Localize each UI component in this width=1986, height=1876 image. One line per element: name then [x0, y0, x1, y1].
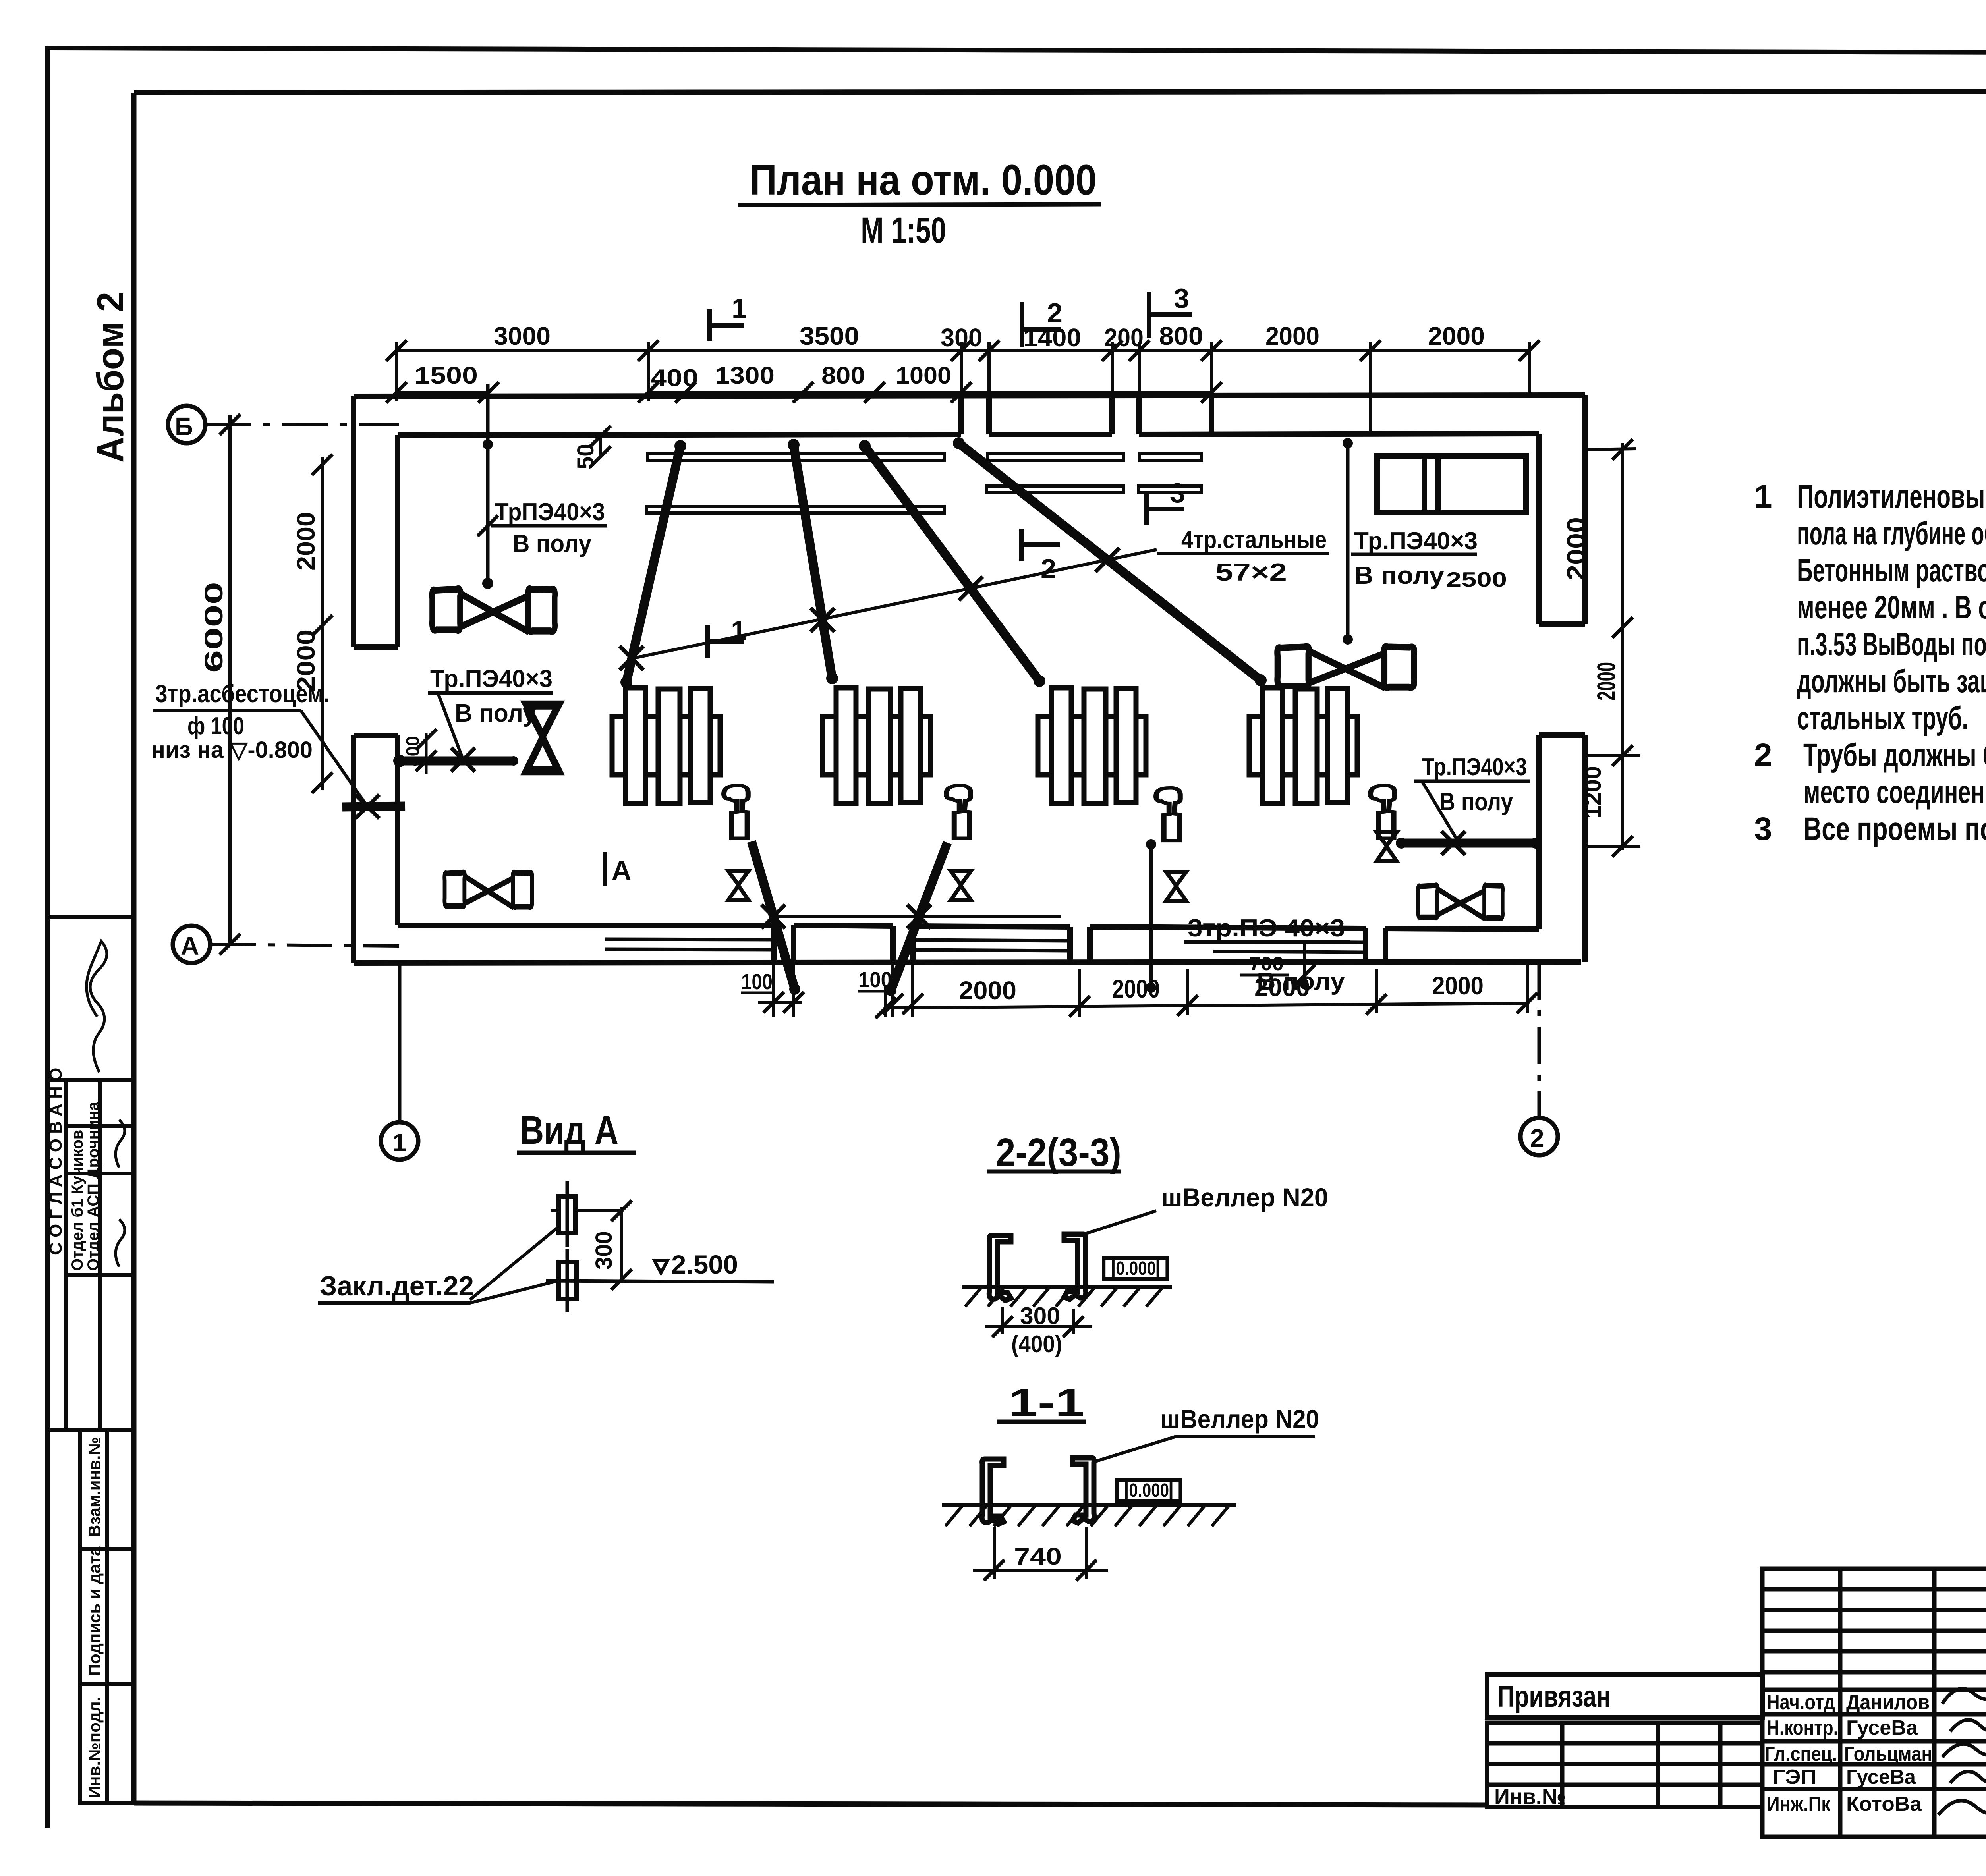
400 vertical dim lower left: [425, 733, 428, 774]
axis A datum line: [210, 944, 399, 946]
header pipe right: [1401, 839, 1536, 848]
svg-text:300: 300: [1020, 1303, 1060, 1329]
svg-text:50: 50: [573, 444, 599, 469]
svg-text:Инв.№подл.: Инв.№подл.: [85, 1697, 104, 1798]
section mark 1 top: [710, 309, 744, 341]
svg-text:менее 20мм . В соответствии с: менее 20мм . В соответствии с СНиП 3.05.…: [1797, 589, 1986, 625]
svg-text:Данилов: Данилов: [1846, 1691, 1930, 1714]
svg-text:Гл.спец.: Гл.спец.: [1765, 1743, 1837, 1766]
right dimension chain line: [1621, 443, 1624, 850]
signature labels: [1765, 1691, 1932, 1816]
svg-text:800: 800: [1159, 322, 1203, 350]
svg-text:Инж.Пк: Инж.Пк: [1767, 1793, 1831, 1816]
axis 2 circle: [1520, 1118, 1558, 1155]
drain funnel 4: [1377, 832, 1397, 861]
svg-text:В полу: В полу: [455, 700, 537, 727]
privyazan lower grid: [1487, 1723, 1762, 1807]
svg-text:2: 2: [1530, 1124, 1544, 1152]
svg-text:2000: 2000: [1562, 517, 1590, 581]
gate valve lower right: [1418, 885, 1503, 919]
svg-text:800: 800: [821, 362, 865, 389]
bottom wall opening jambs: [771, 925, 777, 963]
svg-text:Все проемы после монтажа заде: Все проемы после монтажа заделать.: [1803, 811, 1986, 847]
elbow fitting 2: [947, 786, 971, 838]
svg-text:Гольцман: Гольцман: [1844, 1743, 1932, 1766]
svg-text:В полу: В полу: [513, 530, 591, 558]
740 dim 1-1: [993, 1527, 996, 1579]
thin leader diagonal (steel pipes): [630, 550, 1157, 659]
svg-text:100: 100: [741, 969, 773, 994]
svg-text:2000: 2000: [1428, 322, 1485, 350]
drain pipe 2: [891, 843, 947, 990]
embedded channel strips in bottom wall: [605, 939, 1366, 952]
riser pipe 4: [959, 443, 1261, 680]
bottom dimension line: [886, 1003, 1527, 1008]
svg-text:ГусеВа: ГусеВа: [1846, 1766, 1916, 1789]
dimension row 1 line: [396, 349, 1529, 352]
crossing marks: [620, 646, 643, 670]
svg-text:1: 1: [392, 1128, 407, 1157]
svg-text:место соединения труб должны б: место соединения труб должны быть уплотн…: [1803, 774, 1986, 810]
row1 ticks: [386, 340, 407, 361]
svg-text:ТрПЭ40×3: ТрПЭ40×3: [495, 498, 605, 526]
300 (400) dim 2-2: [1001, 1307, 1004, 1334]
svg-text:С О Г Л А С О В А Н О: С О Г Л А С О В А Н О: [46, 1068, 66, 1255]
section mark A inner: [603, 852, 607, 886]
50 offset dimension: [599, 434, 602, 457]
elbow fitting 3: [1156, 788, 1180, 841]
axis B datum line: [205, 424, 399, 425]
zero level box 1-1: [1117, 1480, 1180, 1501]
svg-text:1200: 1200: [1580, 766, 1606, 818]
svg-text:1300: 1300: [715, 362, 775, 389]
drain funnel 1: [728, 871, 748, 900]
svg-text:Инв.№: Инв.№: [1494, 1784, 1566, 1809]
svg-text:(400): (400): [1011, 1331, 1062, 1357]
sheet top border line: [47, 48, 1986, 54]
svg-text:3000: 3000: [494, 322, 551, 350]
svg-text:КотоВа: КотоВа: [1846, 1793, 1922, 1816]
row2 ticks: [386, 382, 407, 403]
svg-text:3: 3: [1174, 283, 1189, 314]
svg-text:ф 100: ф 100: [187, 712, 244, 740]
right wall lower segment: [1536, 735, 1542, 929]
svg-text:Подпись и дата: Подпись и дата: [85, 1546, 104, 1676]
left stamp approval section: [47, 1080, 134, 1430]
radiator unit 4: [1249, 688, 1357, 803]
axis 2 leader line: [1538, 962, 1541, 1118]
svg-text:2: 2: [1754, 737, 1772, 773]
svg-text:Тр.ПЭ40×3: Тр.ПЭ40×3: [430, 665, 553, 693]
radiator unit 3: [1038, 688, 1146, 803]
svg-text:200: 200: [1104, 323, 1144, 352]
svg-text:1-1: 1-1: [1008, 1380, 1084, 1425]
left wall upper segment: [351, 396, 356, 647]
embed plate lower: [559, 1262, 577, 1299]
svg-text:3500: 3500: [800, 322, 859, 350]
svg-text:2-2(3-3): 2-2(3-3): [996, 1130, 1121, 1175]
svg-text:2: 2: [1047, 297, 1063, 328]
svg-text:2000: 2000: [292, 512, 320, 571]
svg-text:низ на ▽-0.800: низ на ▽-0.800: [151, 737, 313, 763]
channel pair 1-1: [982, 1459, 1004, 1524]
svg-text:А: А: [181, 932, 199, 960]
svg-text:2000: 2000: [1432, 971, 1484, 1000]
gate valve right (near tank): [1277, 647, 1414, 688]
svg-text:400: 400: [651, 365, 698, 391]
axis 1 circle: [381, 1122, 418, 1160]
svg-text:57×2: 57×2: [1215, 559, 1287, 586]
embed plate upper: [551, 1209, 622, 1212]
axis B circle: [168, 406, 205, 443]
right wall upper segment: [1536, 434, 1542, 624]
svg-text:2000: 2000: [1112, 975, 1160, 1003]
revision table: [1762, 1569, 1986, 1837]
extension lines bottom: [886, 963, 1527, 1017]
top dimension labels row1: [494, 322, 1485, 352]
svg-text:Отдел б1 Кучиков: Отдел б1 Кучиков: [69, 1130, 86, 1271]
radiator unit 2: [823, 688, 931, 803]
svg-text:300: 300: [591, 1231, 617, 1270]
asbestos pipe stub left wall: [342, 806, 405, 807]
svg-text:2000: 2000: [1592, 662, 1621, 701]
svg-text:3тр.асбестоцем.: 3тр.асбестоцем.: [155, 680, 330, 708]
section mark 2 inner: [1022, 529, 1060, 561]
svg-text:Нач.отд: Нач.отд: [1767, 1691, 1835, 1714]
pipe end dots: [393, 437, 1541, 996]
svg-text:М 1:50: М 1:50: [861, 210, 946, 251]
2000/2000 dimension line: [321, 457, 324, 790]
radiator unit 1: [612, 688, 720, 803]
svg-text:Бетонным раствором на толщину: Бетонным раствором на толщину слоя над т…: [1797, 552, 1986, 589]
svg-text:6000: 6000: [199, 582, 228, 673]
svg-text:Привязан: Привязан: [1497, 1680, 1611, 1714]
elbow fitting 4: [1371, 786, 1395, 838]
zero level box 2-2: [1104, 1258, 1167, 1279]
svg-text:Тр.ПЭ40×3: Тр.ПЭ40×3: [1422, 753, 1527, 781]
dimension row 2 line: [396, 391, 489, 394]
svg-text:300: 300: [941, 323, 982, 352]
svg-text:4тр.стальные: 4тр.стальные: [1181, 526, 1327, 554]
svg-text:3тр.ПЭ 40×3: 3тр.ПЭ 40×3: [1188, 915, 1345, 942]
svg-text:100: 100: [858, 967, 892, 992]
svg-text:1500: 1500: [414, 362, 478, 389]
top dimension labels row2: [414, 362, 951, 391]
svg-text:1000: 1000: [896, 362, 951, 389]
svg-text:740: 740: [1014, 1543, 1062, 1570]
300 dim between plates: [620, 1207, 623, 1283]
svg-text:п.3.53 ВыВоды полиэтиленовых т: п.3.53 ВыВоды полиэтиленовых труб из под…: [1797, 626, 1986, 662]
left stamp rotated labels: [46, 1068, 104, 1798]
extension verticals row1/row2: [395, 342, 398, 401]
funnel symbol lower-left room: [526, 705, 558, 771]
svg-text:2: 2: [1041, 553, 1056, 584]
svg-text:2000: 2000: [959, 976, 1016, 1005]
section mark 2 top: [1022, 302, 1061, 347]
top wall inner face segments: [398, 434, 961, 435]
svg-text:700: 700: [1249, 953, 1284, 975]
svg-text:План на отм. 0.000: План на отм. 0.000: [750, 156, 1097, 204]
inner frame bottom line: [134, 1803, 1487, 1805]
svg-text:ГЭП: ГЭП: [1773, 1766, 1816, 1789]
svg-text:3: 3: [1754, 811, 1772, 847]
tank leader line: [1346, 440, 1350, 639]
section mark 3 inner: [1146, 493, 1184, 525]
drain funnel 3: [1166, 872, 1186, 901]
6000 dimension line: [228, 415, 232, 946]
svg-text:Б: Б: [175, 412, 193, 441]
svg-text:Альбом 2: Альбом 2: [89, 292, 131, 463]
svg-text:Тр.ПЭ40×3: Тр.ПЭ40×3: [1354, 527, 1478, 555]
left stamp lower boxes: [80, 1430, 134, 1549]
svg-text:В полу: В полу: [1354, 562, 1445, 589]
sheet outer left border line: [45, 46, 50, 1828]
elbow fitting 1: [724, 786, 748, 838]
svg-text:стальных труб.: стальных труб.: [1797, 700, 1968, 736]
channel pair 2-2: [989, 1235, 1011, 1301]
drain funnel 2: [951, 871, 971, 900]
svg-text:1: 1: [731, 615, 746, 646]
left stamp cursive signatures: [87, 941, 125, 1267]
bottom wall inner face segments: [398, 923, 774, 928]
svg-text:ГусеВа: ГусеВа: [1846, 1716, 1918, 1739]
bottom wall outer face: [354, 962, 1581, 963]
top wall outer face: [354, 395, 1585, 396]
svg-text:2500: 2500: [1446, 568, 1507, 591]
leader for TrPE40x3 upper left: [486, 384, 490, 583]
svg-text:Взам.инв.№: Взам.инв.№: [85, 1437, 104, 1537]
svg-text:пола на глубине обеспечивающей: пола на глубине обеспечивающей замонолич…: [1797, 515, 1986, 552]
svg-text:400: 400: [402, 736, 423, 766]
svg-text:Отдел АСП Дрочнина: Отдел АСП Дрочнина: [85, 1102, 102, 1271]
svg-text:шВеллер N20: шВеллер N20: [1161, 1183, 1328, 1212]
gate valve lower left: [444, 872, 532, 908]
top wall opening jambs: [958, 396, 964, 434]
left stamp upper signature box: [47, 917, 134, 1080]
svg-text:1: 1: [1754, 479, 1772, 515]
riser pipe 2: [794, 445, 832, 678]
svg-text:Н.контр.: Н.контр.: [1767, 1716, 1838, 1739]
svg-text:А: А: [612, 855, 631, 886]
gate valve upper left: [432, 589, 555, 632]
drain pipe 1: [752, 841, 795, 989]
svg-text:Закл.дет.22: Закл.дет.22: [320, 1270, 474, 1301]
svg-text:должны быть защищены отрезкам: должны быть защищены отрезками из тонкос…: [1797, 663, 1986, 699]
level mark 2.500: [546, 1281, 774, 1282]
ground line 2-2: [962, 1285, 1172, 1289]
svg-text:Полиэтиленовые трубы заложить: Полиэтиленовые трубы заложить В подготов…: [1797, 479, 1986, 515]
top band second line / inner frame top: [134, 91, 1986, 93]
axis A circle: [173, 926, 210, 963]
svg-text:2.500: 2.500: [671, 1250, 738, 1279]
left wall lower segment: [351, 735, 356, 963]
svg-text:Вид А: Вид А: [520, 1108, 618, 1152]
riser pipe 3: [865, 446, 1039, 681]
svg-text:шВеллер N20: шВеллер N20: [1160, 1404, 1319, 1434]
vertical drain line 3: [1149, 844, 1153, 988]
privyazan box: [1487, 1674, 1762, 1717]
thin leader horizontal (3 pipes label): [771, 915, 1061, 918]
svg-text:2000: 2000: [1265, 322, 1319, 350]
svg-text:1: 1: [732, 293, 747, 324]
inner frame left line: [131, 93, 137, 1803]
section mark 3 top: [1149, 292, 1192, 338]
riser pipe 1: [626, 446, 680, 682]
svg-text:В полу: В полу: [1439, 788, 1513, 816]
floor pipe lower left: [400, 757, 514, 766]
section mark 1 inner: [708, 625, 744, 658]
axis 1 leader line: [398, 963, 402, 1122]
svg-text:Трубы должны быть Выведены из: Трубы должны быть Выведены из пола на 20…: [1803, 737, 1986, 773]
signatures cursive: [1938, 1680, 1986, 1866]
ground line 1-1: [942, 1503, 1236, 1507]
